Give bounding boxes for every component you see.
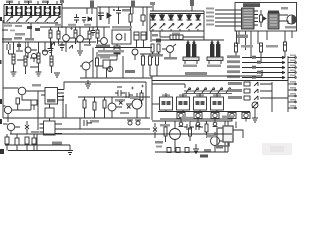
- label rail C 2: [14, 37, 22, 40]
- lamp cell L4: [228, 113, 236, 122]
- ground sym F: [67, 151, 73, 155]
- lamp cell L1: [177, 113, 185, 122]
- label top row 1: [6, 1, 13, 4]
- label below module: [237, 35, 248, 39]
- LED D4: [160, 14, 166, 32]
- resistor R23: [50, 42, 53, 73]
- wire long bottom feeds: [5, 134, 70, 151]
- resistor R22: [37, 42, 40, 72]
- paper smudge: [262, 143, 292, 155]
- label cell S1: [162, 94, 170, 96]
- wire hatch drop: [110, 54, 117, 60]
- resistor R16: [74, 27, 77, 44]
- capacitor C15: [184, 120, 194, 130]
- marker M1: [179, 122, 184, 126]
- melody IC U2: [268, 11, 288, 30]
- resistor R34: [260, 10, 263, 27]
- wire module drops: [237, 31, 293, 58]
- trimmer C18: [127, 120, 133, 125]
- connector pin 1: [288, 57, 296, 59]
- capacitor C11 electrolytic: [113, 7, 121, 24]
- label module title: [243, 3, 260, 7]
- label mid bus 2: [98, 54, 118, 57]
- wire res trio rail: [140, 53, 160, 55]
- wire matrix stem: [152, 76, 185, 120]
- switch cell S1: [160, 93, 173, 112]
- label out row5: [227, 75, 240, 78]
- wire right drop: [146, 7, 148, 40]
- resistor R8 top: [190, 0, 194, 11]
- connector pin 9: [288, 101, 296, 103]
- trimmer VR1: [252, 102, 258, 112]
- LED D7: [187, 14, 193, 32]
- edge artifact 1b: [0, 60, 2, 64]
- label plug top: [222, 116, 234, 119]
- wire U4 out: [62, 118, 80, 129]
- transistor Q15: [126, 93, 142, 118]
- resistor R32: [284, 42, 287, 58]
- resistor R42: [25, 137, 29, 151]
- resistor R29: [149, 54, 152, 76]
- label sig bus: [185, 72, 207, 75]
- edge artifact 4: [0, 149, 4, 154]
- decoder U1: [242, 8, 259, 29]
- label amp4: [204, 149, 211, 152]
- wire out row4: [242, 71, 285, 74]
- opto cell 3: [25, 1, 32, 23]
- transistor Q13: [3, 123, 20, 134]
- diode D13: [69, 45, 73, 49]
- capacitor C2: [82, 18, 86, 24]
- wire out row2: [242, 61, 285, 64]
- resistor R43: [83, 97, 86, 118]
- label mid1: [115, 99, 125, 102]
- opto cell 5: [44, 1, 51, 23]
- wire matrix mid bus: [158, 111, 250, 113]
- resistor R27: [96, 52, 99, 78]
- label pin RX1: [206, 8, 214, 10]
- switch box row3: [244, 96, 288, 100]
- wire node A drop: [99, 7, 101, 20]
- switch cell S3: [194, 93, 207, 112]
- transistor Q21: [162, 44, 176, 58]
- wire out row3: [242, 66, 285, 69]
- label 12V: [52, 142, 62, 145]
- label below array 2: [15, 25, 22, 27]
- lamp cell L3: [211, 113, 219, 122]
- label amp5 dark: [200, 155, 208, 158]
- speaker LS1: [287, 15, 296, 24]
- resistor R46: [32, 134, 36, 151]
- label res row1: [241, 45, 253, 48]
- wire audio bus: [80, 77, 152, 79]
- diode D2: [107, 7, 111, 24]
- ground sym G: [85, 80, 91, 88]
- resistor R21: [24, 42, 27, 74]
- wire long bus upper: [3, 117, 150, 119]
- lamp cell L2: [194, 113, 202, 122]
- opto cell 6: [53, 1, 60, 23]
- connector pin 10: [288, 107, 296, 109]
- label cell S4: [213, 94, 221, 96]
- wire top edge stub: [60, 0, 64, 5]
- capacitor C3 plus mark: [70, 27, 73, 30]
- crystal X1: [45, 104, 54, 121]
- resistor R6: [90, 1, 94, 15]
- LED D8: [196, 14, 202, 32]
- transistor Q11: [3, 87, 45, 100]
- transistor Q22: [43, 42, 48, 55]
- wire plug feed: [235, 122, 237, 129]
- label rail C 3: [25, 38, 34, 41]
- diode D11: [153, 123, 157, 138]
- LED D6: [178, 14, 184, 32]
- label pin RX5: [206, 24, 214, 26]
- label sw row1: [228, 82, 242, 85]
- timer U4: [40, 121, 63, 135]
- label speaker: [285, 26, 296, 29]
- ground sym B: [77, 51, 83, 55]
- wire array drop: [30, 23, 32, 38]
- resistor R11: [141, 32, 146, 48]
- label amp3: [206, 135, 216, 138]
- connector pin 8: [288, 95, 296, 97]
- label above speaker: [281, 7, 288, 10]
- transistor Q12: [3, 105, 31, 122]
- label RB val1: [58, 44, 66, 46]
- diode D1: [88, 17, 92, 21]
- switch box row2: [244, 89, 272, 93]
- wire long return bus: [152, 76, 288, 81]
- wire mid link: [95, 66, 113, 72]
- ground sym E: [54, 73, 60, 77]
- connector pin 3: [288, 67, 296, 69]
- opto cell 4: [34, 1, 41, 23]
- wire analog rail C: [2, 41, 96, 43]
- transistor Q20: [132, 49, 138, 60]
- resistor R10: [134, 32, 139, 48]
- transistor Q14: [108, 97, 122, 118]
- label mid2: [130, 97, 138, 99]
- LED D5: [169, 14, 175, 32]
- label RB val2: [84, 44, 91, 46]
- edge artifact 2: [0, 99, 2, 104]
- connector J1 strip: [287, 56, 289, 112]
- resistor R14: [49, 27, 52, 48]
- wire relay top feed: [152, 39, 224, 41]
- transistor Q7: [63, 27, 74, 52]
- resistor R19: [141, 7, 145, 26]
- wire rc links: [9, 54, 38, 60]
- label Q11: [32, 84, 41, 87]
- power plug P1: [216, 126, 243, 149]
- wire top rails of opto array: [4, 5, 62, 24]
- label filter: [100, 57, 110, 59]
- lamp cell L5: [242, 113, 250, 122]
- resistor R54: [205, 121, 208, 138]
- label rail B 2: [68, 24, 76, 26]
- resistor R51: [167, 148, 171, 153]
- capacitor C23 dark: [35, 28, 40, 31]
- transistor Q16: [166, 121, 181, 152]
- wire top mid link: [62, 5, 97, 29]
- wire LED bottom rail: [150, 31, 204, 42]
- label tone: [152, 34, 158, 37]
- wire amp bottom rail: [155, 121, 228, 152]
- capacitor C13: [126, 92, 133, 98]
- small box X2: [31, 100, 37, 110]
- wire left long vertical: [2, 20, 4, 118]
- capacitor C4: [91, 27, 95, 36]
- label rail B 1: [55, 24, 61, 26]
- ground sym A: [48, 49, 54, 53]
- capacitor C12: [115, 86, 125, 96]
- diode D14: [264, 17, 267, 20]
- capacitor C20 plus: [131, 87, 134, 90]
- diode D15: [119, 101, 123, 105]
- wire center bus: [78, 96, 150, 98]
- label R55: [151, 54, 163, 57]
- label amp1: [160, 124, 170, 127]
- wire out row5: [242, 76, 285, 79]
- resistor R44: [93, 97, 96, 118]
- relay K2: [207, 40, 223, 64]
- capacitor C17: [84, 120, 99, 126]
- label below array 1: [4, 25, 12, 27]
- resistor R45: [103, 97, 106, 118]
- transistor Q19: [32, 54, 37, 63]
- wire mid bus: [95, 47, 152, 49]
- label speck 2: [10, 30, 15, 32]
- label out row1: [227, 55, 240, 58]
- resistor R30: [235, 43, 238, 58]
- label RC val3: [30, 66, 38, 68]
- label R13: [172, 33, 180, 35]
- edge artifact 1: [0, 17, 2, 21]
- label sw row2: [228, 89, 242, 92]
- resistor R18: [96, 27, 99, 44]
- label top row 3: [42, 1, 49, 4]
- resistor R57: [189, 121, 192, 141]
- capacitor C7 dark: [17, 42, 21, 50]
- capacitor C5: [7, 42, 10, 54]
- label J1 pins: [290, 55, 296, 107]
- resistor R47: [140, 90, 143, 104]
- label out row3: [227, 65, 240, 68]
- ground sym D: [36, 72, 42, 76]
- resistor R41: [15, 134, 19, 151]
- opto cell 2: [15, 1, 22, 23]
- wire sig bus long: [150, 70, 262, 76]
- label rail C 1: [2, 38, 12, 41]
- label mid3: [120, 112, 129, 114]
- ground sym C: [11, 72, 17, 76]
- resistor R31: [260, 43, 263, 63]
- diode strip row: [184, 88, 232, 94]
- transistor Q8: [77, 27, 88, 50]
- resistor R9: [129, 7, 132, 30]
- label Q21: [164, 57, 177, 60]
- resistor R28: [142, 54, 145, 78]
- label MIC: [125, 70, 135, 73]
- resistor R48: [16, 98, 20, 110]
- transistor Q9: [97, 27, 107, 52]
- wire mid-top horizontal: [97, 6, 152, 8]
- transistor Q17: [211, 132, 227, 152]
- switch cell S4: [211, 93, 224, 112]
- ground sym I: [193, 144, 199, 153]
- connector pin 2: [288, 62, 296, 64]
- label osc: [112, 26, 132, 29]
- label mid bus 1: [98, 50, 124, 53]
- resistor R15: [57, 27, 60, 44]
- capacitor C16: [196, 124, 203, 130]
- connector pin 5: [288, 77, 296, 79]
- filter FL1: [103, 60, 110, 78]
- label below array 3: [15, 33, 25, 36]
- resistor R53: [185, 148, 189, 153]
- wire matrix left feed: [152, 103, 160, 105]
- capacitor C1: [74, 14, 79, 23]
- diode D16: [127, 105, 131, 109]
- resistor R13: [160, 31, 204, 40]
- label rail B 3: [84, 24, 91, 26]
- LED D3: [151, 14, 157, 32]
- wire mid drop: [96, 8, 98, 27]
- edge artifact 3: [0, 119, 2, 124]
- opto cell 1: [6, 1, 13, 23]
- marker M2: [196, 122, 201, 126]
- capacitor C6: [98, 13, 104, 20]
- switch cell S2: [177, 93, 190, 112]
- label RC val1: [16, 50, 23, 52]
- wire stubs into module: [215, 10, 242, 26]
- resistor R35: [156, 54, 159, 76]
- wire LED array rails: [150, 11, 204, 31]
- label pin RX3: [206, 16, 214, 18]
- capacitor C21 plus: [141, 85, 144, 88]
- label cell S3: [196, 94, 204, 96]
- label K1: [183, 65, 197, 68]
- label cell S2: [179, 94, 187, 96]
- transformer L1 hatch: [114, 44, 120, 54]
- label 100k: [122, 9, 130, 12]
- dark blob tone: [156, 39, 161, 43]
- label RC val2: [42, 50, 49, 52]
- connector pin 7: [288, 89, 296, 91]
- label top row 2: [24, 1, 32, 4]
- wire U3 to bus: [64, 82, 146, 90]
- label K2: [207, 65, 221, 68]
- resistor R20: [12, 42, 15, 72]
- resistor R55: [151, 44, 154, 58]
- relay K1: [183, 40, 199, 64]
- label out row4: [227, 70, 240, 73]
- label array left end: [150, 2, 155, 11]
- connector pin 6: [288, 83, 296, 85]
- capacitor C24: [60, 42, 64, 51]
- ground sym H: [252, 112, 258, 123]
- wire out row1: [242, 56, 285, 59]
- label res row2: [266, 45, 278, 48]
- wire mid verticals: [93, 48, 123, 79]
- label amp2: [181, 117, 193, 119]
- label R50: [155, 141, 163, 148]
- switch box row1: [244, 82, 272, 86]
- capacitor C22 dark: [27, 26, 32, 29]
- op-amp U3: [41, 88, 64, 105]
- wire bottom long lines: [10, 129, 232, 134]
- wire right column: [271, 82, 273, 112]
- diode D12: [51, 42, 55, 46]
- label out row2: [227, 60, 240, 63]
- marker M3: [213, 122, 218, 126]
- resistor R50: [164, 121, 167, 142]
- trimmer C19: [135, 120, 141, 125]
- diode D10: [25, 121, 29, 134]
- label pin RX4: [206, 20, 214, 22]
- oscillator module box: [112, 30, 131, 44]
- module outline box: [235, 3, 297, 32]
- wire lowerleft verticals: [38, 91, 66, 130]
- resistor R56: [157, 44, 160, 56]
- resistor R7: [131, 1, 135, 15]
- resistor R52: [176, 148, 180, 153]
- transistor Q18: [25, 42, 37, 58]
- connector pin 4: [288, 72, 296, 74]
- resistor R40: [5, 134, 9, 151]
- label bottomleft: [31, 131, 39, 133]
- label mid bus 3: [96, 45, 110, 48]
- wire bottom amp rail: [152, 119, 232, 121]
- label sw row3: [228, 96, 242, 99]
- wire right stem: [145, 82, 147, 118]
- resistor R17: [88, 27, 91, 46]
- label pin RX2: [206, 12, 214, 14]
- transistor Q10: [80, 60, 93, 78]
- wire analog rail B: [40, 26, 110, 28]
- label speck 1: [2, 29, 8, 31]
